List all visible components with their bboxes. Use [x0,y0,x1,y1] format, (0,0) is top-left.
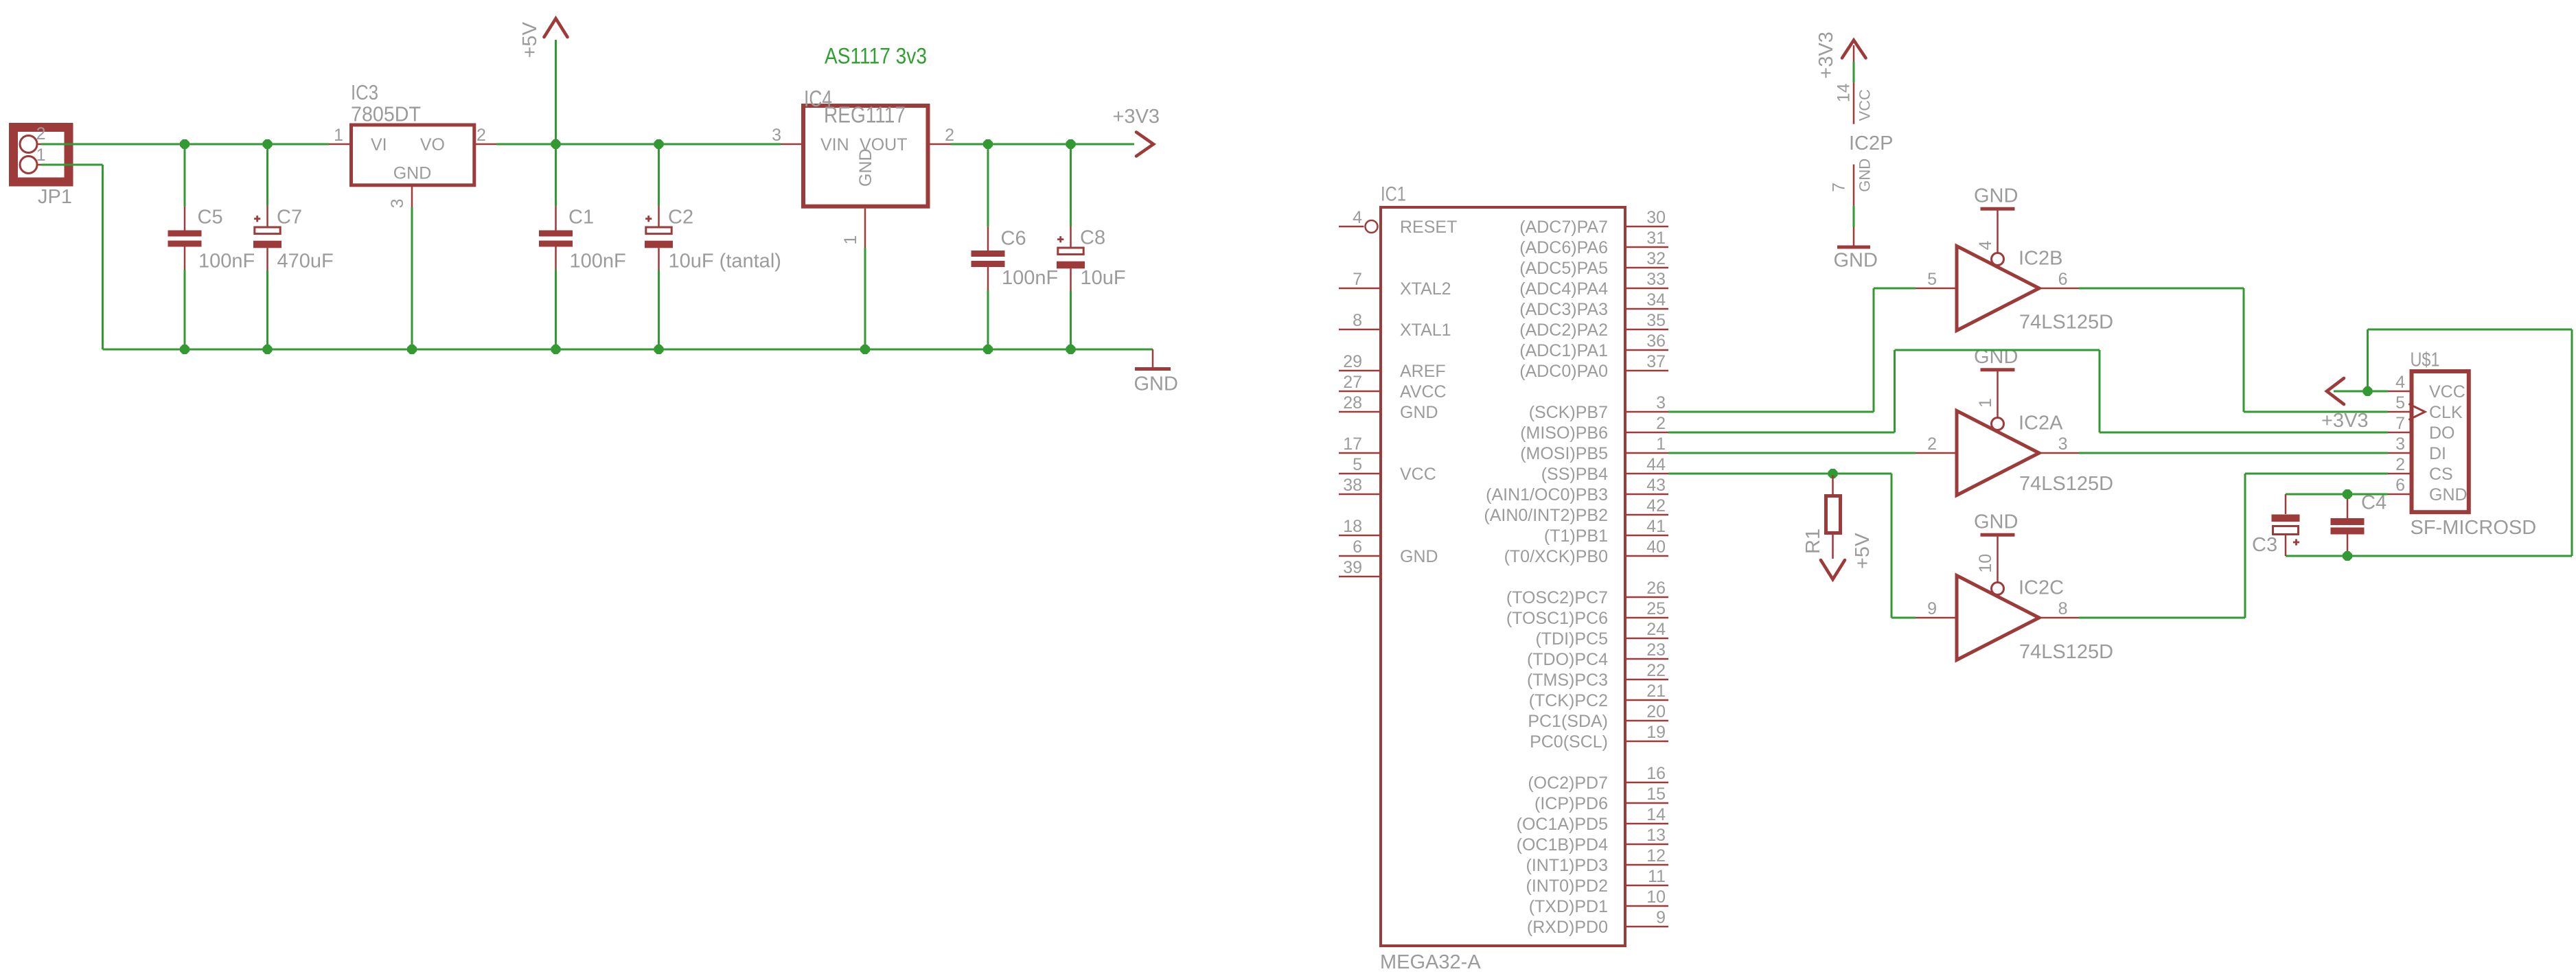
svg-text:(ADC2)PA2: (ADC2)PA2 [1519,321,1608,340]
svg-text:42: 42 [1646,496,1666,515]
svg-text:IC2B: IC2B [2019,248,2062,270]
svg-text:(ADC7)PA7: (ADC7)PA7 [1519,218,1608,237]
svg-text:8: 8 [1353,311,1362,330]
svg-text:(T0/XCK)PB0: (T0/XCK)PB0 [1504,547,1608,566]
svg-text:10: 10 [1646,887,1666,907]
svg-text:VCC: VCC [1856,89,1874,121]
svg-text:7: 7 [2395,414,2405,433]
svg-text:GND: GND [393,164,432,183]
svg-text:+3V3: +3V3 [1815,32,1837,79]
svg-text:RESET: RESET [1400,218,1457,237]
svg-text:11: 11 [1648,867,1666,886]
svg-text:100nF: 100nF [1002,267,1058,289]
svg-text:(TCK)PC2: (TCK)PC2 [1529,691,1608,710]
svg-text:2: 2 [1656,414,1666,433]
svg-text:4: 4 [1976,241,1995,251]
svg-text:(ADC5)PA5: (ADC5)PA5 [1519,259,1608,278]
svg-text:36: 36 [1646,332,1666,351]
svg-text:40: 40 [1646,537,1666,557]
svg-text:31: 31 [1646,229,1666,248]
svg-text:16: 16 [1646,764,1666,783]
svg-text:15: 15 [1646,785,1666,804]
svg-text:3: 3 [2395,434,2405,454]
svg-text:28: 28 [1343,393,1362,413]
svg-text:IC2A: IC2A [2019,413,2063,434]
svg-text:(INT1)PD3: (INT1)PD3 [1526,856,1608,875]
svg-text:(SS)PB4: (SS)PB4 [1541,465,1608,484]
svg-text:(T1)PB1: (T1)PB1 [1544,526,1608,546]
svg-text:20: 20 [1646,702,1666,721]
svg-text:10uF (tantal): 10uF (tantal) [669,251,781,272]
svg-text:7805DT: 7805DT [351,102,421,126]
svg-text:2: 2 [476,126,486,145]
svg-text:74LS125D: 74LS125D [2019,641,2113,663]
svg-text:1: 1 [36,146,46,165]
svg-text:5: 5 [2395,393,2405,413]
svg-text:U$1: U$1 [2411,349,2440,371]
svg-text:R1: R1 [1802,528,1824,554]
svg-text:(ADC1)PA1: (ADC1)PA1 [1519,341,1608,360]
svg-text:26: 26 [1646,579,1666,598]
svg-text:4: 4 [1353,208,1362,227]
svg-text:(AIN0/INT2)PB2: (AIN0/INT2)PB2 [1484,506,1608,525]
svg-text:100nF: 100nF [570,251,626,272]
svg-text:74LS125D: 74LS125D [2019,473,2113,495]
svg-text:30: 30 [1646,208,1666,227]
svg-text:(AIN1/OC0)PB3: (AIN1/OC0)PB3 [1486,485,1608,504]
svg-text:GND: GND [1400,547,1438,566]
svg-text:+3V3: +3V3 [2321,410,2369,432]
svg-text:C8: C8 [1080,227,1105,249]
svg-text:10uF: 10uF [1081,267,1126,289]
svg-text:9: 9 [1656,908,1666,927]
svg-text:C6: C6 [1001,228,1026,250]
svg-text:C1: C1 [568,207,594,229]
svg-text:2: 2 [1927,434,1937,454]
svg-text:14: 14 [1835,83,1854,102]
svg-text:AREF: AREF [1400,362,1446,381]
svg-text:AVCC: AVCC [1400,382,1447,402]
svg-text:(OC1B)PD4: (OC1B)PD4 [1517,835,1608,855]
svg-text:1: 1 [334,126,343,145]
svg-text:7: 7 [1353,270,1362,289]
svg-text:33: 33 [1646,270,1666,289]
svg-text:17: 17 [1343,434,1362,454]
svg-text:7: 7 [1830,183,1849,192]
svg-text:29: 29 [1343,352,1362,371]
svg-text:XTAL2: XTAL2 [1400,279,1451,299]
svg-text:(INT0)PD2: (INT0)PD2 [1526,876,1608,896]
svg-text:4: 4 [2395,373,2405,392]
svg-text:MEGA32-A: MEGA32-A [1380,951,1481,973]
svg-text:JP1: JP1 [38,186,72,208]
svg-text:13: 13 [1646,826,1666,845]
svg-text:IC2P: IC2P [1849,132,1893,154]
svg-text:VO: VO [420,135,445,154]
svg-text:DO: DO [2429,423,2455,443]
svg-text:18: 18 [1343,517,1362,536]
svg-text:C2: C2 [668,206,693,228]
svg-text:5: 5 [1927,270,1937,289]
svg-text:+5V: +5V [1852,533,1874,569]
svg-text:5: 5 [1353,455,1362,474]
svg-text:22: 22 [1646,661,1666,680]
svg-text:(ADC0)PA0: (ADC0)PA0 [1519,362,1608,381]
svg-text:6: 6 [2395,476,2405,495]
svg-text:GND: GND [1400,403,1438,422]
svg-text:35: 35 [1646,311,1666,330]
svg-text:8: 8 [2058,599,2068,618]
svg-text:100nF: 100nF [198,251,255,272]
svg-text:10: 10 [1976,554,1995,573]
svg-text:IC3: IC3 [351,80,378,104]
svg-text:VCC: VCC [2429,382,2465,402]
svg-text:470uF: 470uF [277,251,334,272]
svg-text:IC2C: IC2C [2019,577,2064,599]
svg-text:VI: VI [371,135,387,154]
svg-text:GND: GND [856,148,875,187]
svg-text:(ICP)PD6: (ICP)PD6 [1534,794,1608,813]
svg-text:34: 34 [1646,290,1666,310]
svg-text:VCC: VCC [1400,465,1436,484]
svg-text:3: 3 [2058,434,2068,454]
svg-text:(ADC3)PA3: (ADC3)PA3 [1519,300,1608,319]
svg-text:27: 27 [1343,373,1362,392]
svg-text:SF-MICROSD: SF-MICROSD [2411,517,2537,539]
svg-text:C5: C5 [198,207,223,229]
svg-text:23: 23 [1646,640,1666,660]
svg-text:38: 38 [1343,476,1362,495]
svg-text:(OC2)PD7: (OC2)PD7 [1528,774,1608,793]
svg-text:(TOSC1)PC6: (TOSC1)PC6 [1506,609,1608,628]
svg-text:C3: C3 [2252,534,2277,556]
svg-text:2: 2 [36,124,46,143]
svg-text:(TDI)PC5: (TDI)PC5 [1535,629,1608,649]
svg-text:+5V: +5V [519,21,541,58]
svg-text:1: 1 [1976,398,1995,408]
svg-text:44: 44 [1646,455,1666,474]
svg-text:12: 12 [1646,846,1666,865]
svg-text:IC1: IC1 [1381,183,1406,206]
svg-text:25: 25 [1646,599,1666,618]
svg-text:39: 39 [1343,558,1362,577]
svg-text:19: 19 [1646,723,1666,742]
svg-text:3: 3 [1656,393,1666,413]
svg-text:PC1(SDA): PC1(SDA) [1528,712,1608,731]
svg-text:CLK: CLK [2429,403,2463,422]
svg-text:GND: GND [1134,373,1178,395]
svg-text:(ADC4)PA4: (ADC4)PA4 [1519,279,1608,299]
svg-text:(OC1A)PD5: (OC1A)PD5 [1517,815,1608,834]
svg-text:37: 37 [1646,352,1666,371]
svg-text:GND: GND [1856,159,1874,192]
svg-text:AS1117 3v3: AS1117 3v3 [825,44,927,69]
svg-text:C7: C7 [277,206,302,228]
svg-text:32: 32 [1646,249,1666,268]
svg-text:GND: GND [1974,511,2018,533]
svg-text:REG1117: REG1117 [824,102,906,128]
svg-text:(SCK)PB7: (SCK)PB7 [1529,403,1608,422]
svg-text:C4: C4 [2361,492,2387,514]
svg-text:3: 3 [388,199,407,209]
svg-text:41: 41 [1646,517,1666,536]
svg-text:74LS125D: 74LS125D [2019,312,2113,334]
svg-text:GND: GND [2429,485,2468,504]
svg-text:21: 21 [1646,682,1666,701]
svg-text:(MOSI)PB5: (MOSI)PB5 [1520,444,1608,463]
svg-text:43: 43 [1646,476,1666,495]
svg-text:VIN: VIN [820,135,849,154]
svg-text:1: 1 [841,235,860,245]
svg-text:1: 1 [1656,434,1666,454]
svg-text:(MISO)PB6: (MISO)PB6 [1520,423,1608,443]
svg-text:PC0(SCL): PC0(SCL) [1530,732,1608,752]
svg-text:2: 2 [2395,455,2405,474]
svg-text:3: 3 [772,126,781,145]
svg-text:(TOSC2)PC7: (TOSC2)PC7 [1506,588,1608,607]
svg-text:6: 6 [2058,270,2068,289]
svg-text:CS: CS [2429,465,2453,484]
svg-text:GND: GND [1974,185,2018,207]
svg-text:(TXD)PD1: (TXD)PD1 [1529,897,1608,916]
svg-text:(TDO)PC4: (TDO)PC4 [1527,650,1608,669]
svg-text:(ADC6)PA6: (ADC6)PA6 [1519,238,1608,257]
svg-text:DI: DI [2429,444,2446,463]
svg-text:+3V3: +3V3 [1113,106,1160,128]
svg-text:24: 24 [1646,620,1666,639]
svg-text:9: 9 [1927,599,1937,618]
svg-text:2: 2 [945,126,954,145]
svg-text:(TMS)PC3: (TMS)PC3 [1527,671,1608,690]
svg-text:6: 6 [1353,537,1362,557]
svg-text:(RXD)PD0: (RXD)PD0 [1527,918,1608,937]
svg-text:14: 14 [1646,805,1666,824]
svg-text:GND: GND [1834,250,1878,272]
svg-text:XTAL1: XTAL1 [1400,321,1451,340]
